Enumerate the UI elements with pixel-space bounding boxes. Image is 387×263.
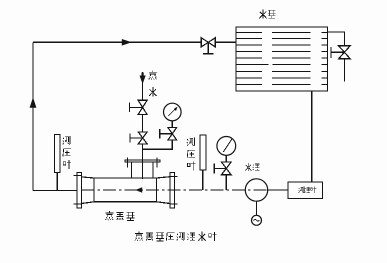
flow arrow right on top header [122,39,132,46]
steam flow arrow down [140,76,146,85]
label 加热器 [105,211,113,220]
water tank shell [236,27,328,91]
wire: left riser pipe [32,42,34,190]
label 测压计 (left piezometer) [63,136,70,145]
heater right taper [157,177,171,204]
heater body [94,178,157,202]
caption 加热器实验装置图 [135,232,143,241]
label 流量计 in box [299,187,304,193]
wire: gauge G2 branch down to pipe [225,175,227,190]
wire: top header pipe to valve V1 [33,41,201,43]
water tank internal ticks (right edge) [322,32,328,84]
flow meter box [288,182,323,199]
steam nozzle sides [132,162,153,178]
flow arrow left on heater centerline [135,187,142,192]
valve VB (steam valve lower) [138,132,147,144]
steam nozzle flange bar on heater top [125,160,160,162]
valve VD (gauge G2 isolation valve) [222,162,232,175]
label 水箱 [259,9,266,18]
pump P1 [245,179,267,201]
heater left taper [82,177,95,204]
wire: pipe centerline through heater to pump to box (dash-dot) [82,189,268,191]
wire: tank overflow to drain valve V2 [328,32,345,46]
water tank internal lines (left column) [236,32,268,84]
wire: gauge branch to steam pipe [143,140,173,149]
label 测压计 (right piezometer) [187,137,194,146]
heater right flange [170,173,175,209]
wire: steam supply pipe [142,72,144,179]
valve VC (gauge G1 isolation valve) [168,128,177,140]
wire: drain outlet [343,59,345,82]
label 蒸汽 [149,71,157,80]
motor M (with ~) [256,201,258,215]
pressure gauge G2 (water) [217,137,236,156]
valve V2 (tank drain valve) [339,46,351,59]
piezometer tube (left) [55,135,61,173]
heater left flange [77,173,82,209]
valve V1 (tank inlet valve) [201,38,215,47]
flow arrow up on left riser [30,97,37,108]
nozzle flange bolts [128,158,157,168]
valve VA (steam valve upper) [138,100,147,114]
pressure gauge G1 (steam) [164,103,182,121]
wire: main horizontal pipe (heater outlet, solid) [33,189,77,191]
piezometer tube (right) [200,135,206,170]
wire: valve V1 to tank [215,41,236,43]
wire: tank outlet downcomer [311,91,313,182]
label 水泵 [245,163,251,171]
water tank internal lines (middle column) [272,32,311,84]
